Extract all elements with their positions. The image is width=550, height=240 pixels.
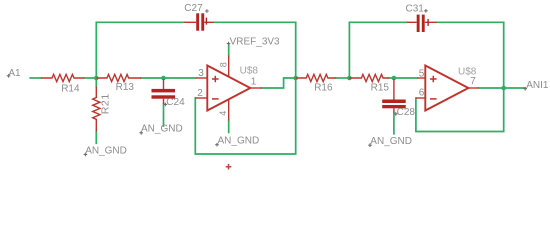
svg-text:7: 7 xyxy=(470,76,476,87)
svg-text:AN_GND: AN_GND xyxy=(218,136,260,147)
svg-text:R16: R16 xyxy=(314,82,333,93)
svg-text:3: 3 xyxy=(198,68,204,79)
svg-text:ANI1: ANI1 xyxy=(526,80,549,91)
svg-text:R21: R21 xyxy=(100,93,112,114)
svg-text:5: 5 xyxy=(419,68,425,79)
svg-text:C31: C31 xyxy=(406,3,425,14)
svg-text:C28: C28 xyxy=(397,107,416,118)
svg-text:C27: C27 xyxy=(184,3,203,14)
svg-text:AN_GND: AN_GND xyxy=(85,145,127,156)
svg-text:R15: R15 xyxy=(371,82,390,93)
svg-text:C24: C24 xyxy=(166,97,185,108)
svg-text:VREF_3V3: VREF_3V3 xyxy=(230,36,280,47)
svg-text:R13: R13 xyxy=(116,82,135,93)
svg-text:2: 2 xyxy=(197,88,203,99)
svg-text:A1: A1 xyxy=(8,68,21,79)
svg-text:U$8: U$8 xyxy=(240,66,259,77)
svg-text:AN_GND: AN_GND xyxy=(141,123,183,134)
svg-text:6: 6 xyxy=(419,88,425,99)
svg-text:8: 8 xyxy=(218,62,228,67)
svg-text:AN_GND: AN_GND xyxy=(370,136,412,147)
svg-text:R14: R14 xyxy=(61,84,80,95)
svg-text:1: 1 xyxy=(251,76,257,87)
svg-text:4: 4 xyxy=(218,111,228,116)
